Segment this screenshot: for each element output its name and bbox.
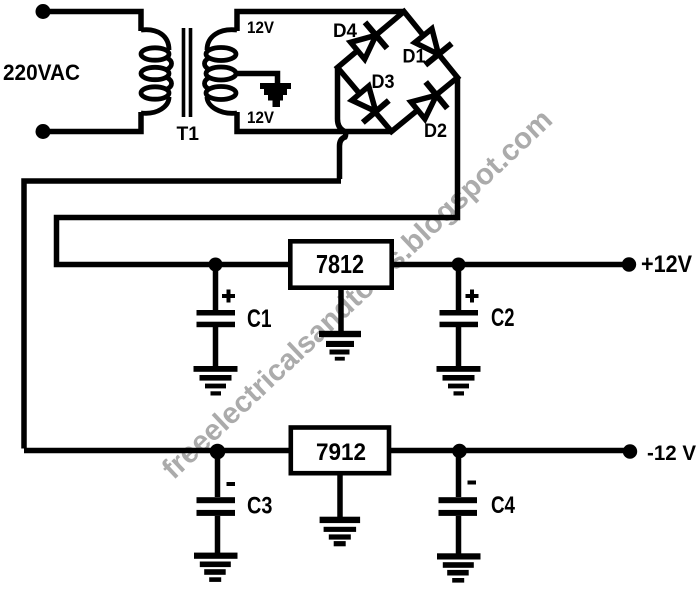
ground (C1) xyxy=(194,366,238,396)
watermark xyxy=(156,103,559,486)
capacitor C3 xyxy=(197,451,236,554)
node C2 junction xyxy=(452,258,466,272)
ground (7812) xyxy=(319,331,361,361)
ground (center tap, solid) xyxy=(260,83,291,107)
wire negative rail bottom xyxy=(24,448,289,454)
capacitor C2 xyxy=(440,265,479,368)
svg-text:+12V: +12V xyxy=(641,251,692,278)
terminal dot +12V xyxy=(622,257,636,271)
wire center tap xyxy=(235,74,278,85)
svg-text:12V: 12V xyxy=(247,108,275,127)
wire secondary top xyxy=(237,12,404,32)
svg-text:220VAC: 220VAC xyxy=(3,60,80,85)
svg-text:D3: D3 xyxy=(372,72,395,93)
capacitor C4 xyxy=(439,451,478,554)
svg-text:D2: D2 xyxy=(424,121,447,142)
diode D4 xyxy=(351,22,387,59)
wire xyxy=(43,12,141,32)
wire 7812 ground pin xyxy=(338,290,344,331)
node C3 junction xyxy=(210,444,226,460)
diode D1 xyxy=(415,29,452,65)
svg-text:7812: 7812 xyxy=(316,249,364,279)
node C1 junction xyxy=(209,258,223,272)
ground (C3) xyxy=(194,553,238,582)
terminal dot -12V xyxy=(623,444,637,458)
svg-text:D1: D1 xyxy=(403,46,426,67)
svg-text:D4: D4 xyxy=(333,21,357,42)
transformer T1 primary winding xyxy=(141,30,172,114)
wire negative rail to left xyxy=(24,181,341,449)
svg-text:C4: C4 xyxy=(491,492,516,519)
ground (C4) xyxy=(437,553,481,582)
svg-text:12V: 12V xyxy=(247,18,275,37)
wire positive from bridge right vertex xyxy=(57,78,458,265)
ground (7912) xyxy=(320,517,361,547)
diode D3 xyxy=(352,86,389,122)
svg-text:T1: T1 xyxy=(177,124,200,145)
regulator 7812 box xyxy=(290,241,391,287)
capacitor C1 xyxy=(197,265,236,368)
transformer T1 core xyxy=(182,28,186,117)
transformer T1 secondary winding xyxy=(205,30,238,114)
terminal dot (220VAC neutral) xyxy=(36,124,51,139)
svg-text:7912: 7912 xyxy=(316,439,366,466)
wire xyxy=(43,112,141,132)
wire 7912 ground pin xyxy=(337,474,343,517)
bridge rectifier diamond xyxy=(338,12,458,132)
regulator 7912 box xyxy=(291,428,389,474)
svg-text:C3: C3 xyxy=(247,493,272,520)
ground (C2) xyxy=(437,366,481,396)
terminal dot (220VAC line) xyxy=(36,4,51,19)
svg-text:C1: C1 xyxy=(247,305,272,333)
svg-text:C2: C2 xyxy=(491,304,515,332)
wire 7912 output xyxy=(391,448,630,454)
wire 7812 output xyxy=(394,262,629,268)
node C4 junction xyxy=(452,444,467,459)
wire negative from bridge left vertex with hop xyxy=(338,68,346,180)
wire secondary bottom xyxy=(237,112,392,132)
svg-text:-12 V: -12 V xyxy=(647,441,697,465)
diode D2 xyxy=(411,82,447,119)
